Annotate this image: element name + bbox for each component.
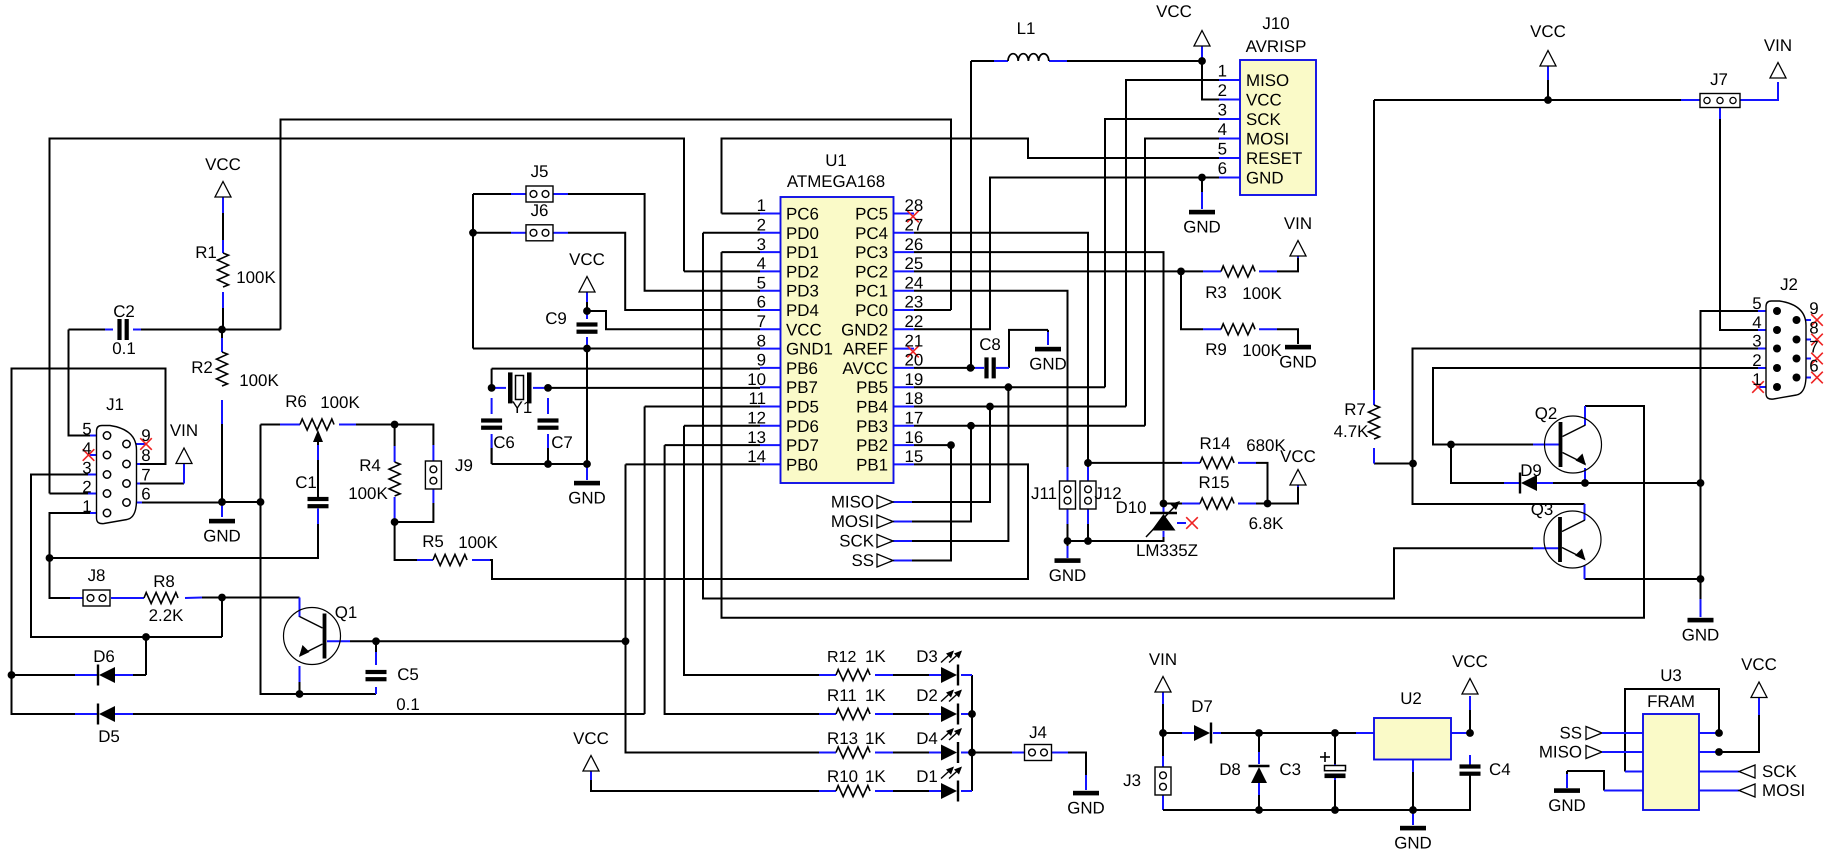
svg-text:R10: R10	[827, 767, 858, 786]
svg-text:VCC: VCC	[786, 320, 822, 339]
svg-text:23: 23	[905, 293, 924, 312]
svg-text:4: 4	[1218, 120, 1227, 139]
svg-text:GND2: GND2	[841, 320, 888, 339]
svg-text:D6: D6	[93, 647, 115, 666]
svg-text:Q2: Q2	[1535, 404, 1558, 423]
svg-text:R15: R15	[1199, 473, 1230, 492]
svg-text:1K: 1K	[865, 647, 886, 666]
svg-text:9: 9	[757, 351, 766, 370]
svg-text:11: 11	[748, 389, 766, 408]
svg-text:VIN: VIN	[170, 421, 198, 440]
svg-text:1K: 1K	[865, 686, 886, 705]
svg-text:2: 2	[757, 216, 766, 235]
svg-text:D1: D1	[916, 767, 938, 786]
svg-text:GND1: GND1	[786, 340, 833, 359]
svg-text:2: 2	[1218, 81, 1227, 100]
svg-text:5: 5	[82, 420, 91, 439]
svg-text:C7: C7	[551, 433, 573, 452]
svg-text:R7: R7	[1344, 400, 1366, 419]
svg-text:AREF: AREF	[843, 340, 888, 359]
svg-text:MOSI: MOSI	[1762, 781, 1805, 800]
svg-text:0.1: 0.1	[112, 339, 135, 358]
svg-text:C6: C6	[493, 433, 515, 452]
svg-text:100K: 100K	[320, 393, 360, 412]
svg-text:22: 22	[905, 312, 924, 331]
svg-text:VCC: VCC	[1741, 655, 1777, 674]
svg-text:D9: D9	[1520, 461, 1542, 480]
svg-text:1K: 1K	[865, 767, 886, 786]
svg-text:4: 4	[757, 254, 766, 273]
svg-text:18: 18	[905, 389, 924, 408]
svg-text:14: 14	[747, 447, 766, 466]
svg-text:GND: GND	[1682, 626, 1720, 645]
svg-text:PD2: PD2	[786, 262, 819, 281]
svg-text:20: 20	[905, 351, 924, 370]
svg-text:100K: 100K	[458, 533, 498, 552]
svg-text:R14: R14	[1200, 434, 1231, 453]
svg-text:9: 9	[1809, 299, 1818, 318]
svg-text:5: 5	[1218, 140, 1227, 159]
svg-text:FRAM: FRAM	[1647, 692, 1695, 711]
svg-text:PC4: PC4	[855, 224, 888, 243]
svg-text:J8: J8	[88, 566, 106, 585]
svg-text:C1: C1	[295, 473, 317, 492]
svg-text:GND: GND	[1246, 169, 1284, 188]
svg-text:PC1: PC1	[855, 282, 888, 301]
svg-text:15: 15	[905, 447, 924, 466]
svg-text:GND: GND	[1548, 796, 1586, 815]
svg-text:PD1: PD1	[786, 243, 819, 262]
svg-text:J5: J5	[531, 162, 549, 181]
svg-text:6: 6	[757, 293, 766, 312]
svg-text:1: 1	[82, 497, 91, 516]
svg-text:100K: 100K	[1242, 341, 1282, 360]
svg-text:PD5: PD5	[786, 398, 819, 417]
svg-text:24: 24	[905, 273, 924, 292]
svg-text:VCC: VCC	[1530, 22, 1566, 41]
svg-text:R8: R8	[153, 572, 175, 591]
svg-text:3: 3	[1218, 101, 1227, 120]
svg-text:4: 4	[82, 439, 91, 458]
svg-text:J1: J1	[106, 395, 124, 414]
svg-text:PC2: PC2	[855, 262, 888, 281]
svg-text:5: 5	[1752, 294, 1761, 313]
svg-text:MISO: MISO	[831, 493, 874, 512]
svg-text:VIN: VIN	[1764, 36, 1792, 55]
svg-text:26: 26	[905, 235, 924, 254]
svg-text:27: 27	[905, 216, 924, 235]
svg-text:MISO: MISO	[1246, 71, 1289, 90]
svg-text:PB1: PB1	[856, 455, 888, 474]
svg-text:C9: C9	[545, 309, 567, 328]
svg-text:C4: C4	[1489, 760, 1511, 779]
svg-text:MISO: MISO	[1539, 743, 1582, 762]
svg-text:VCC: VCC	[1156, 2, 1192, 21]
svg-text:D10: D10	[1116, 498, 1147, 517]
svg-text:U3: U3	[1660, 666, 1682, 685]
svg-text:6.8K: 6.8K	[1249, 514, 1284, 533]
svg-text:Q1: Q1	[335, 603, 358, 622]
svg-text:RESET: RESET	[1246, 149, 1302, 168]
svg-text:SCK: SCK	[1762, 762, 1797, 781]
svg-text:6: 6	[141, 485, 150, 504]
svg-text:J10: J10	[1262, 14, 1289, 33]
svg-text:VCC: VCC	[1246, 91, 1282, 110]
svg-text:ATMEGA168: ATMEGA168	[787, 172, 885, 191]
svg-text:8: 8	[1809, 319, 1818, 338]
svg-text:13: 13	[747, 428, 766, 447]
svg-text:J6: J6	[531, 201, 549, 220]
svg-text:PC5: PC5	[855, 205, 888, 224]
svg-text:2: 2	[82, 478, 91, 497]
svg-text:GND: GND	[1394, 834, 1432, 853]
svg-text:PB0: PB0	[786, 455, 818, 474]
svg-text:SS: SS	[1559, 724, 1582, 743]
svg-text:8: 8	[757, 331, 766, 350]
svg-text:PB5: PB5	[856, 378, 888, 397]
svg-text:28: 28	[905, 196, 924, 215]
svg-text:16: 16	[905, 428, 924, 447]
svg-text:1: 1	[1752, 370, 1761, 389]
svg-text:MOSI: MOSI	[831, 512, 874, 531]
svg-text:J11: J11	[1031, 484, 1057, 503]
svg-text:17: 17	[905, 409, 924, 428]
svg-text:PB7: PB7	[786, 378, 818, 397]
svg-text:R6: R6	[285, 392, 307, 411]
svg-text:PB3: PB3	[856, 417, 888, 436]
svg-text:21: 21	[905, 331, 924, 350]
svg-text:Q3: Q3	[1531, 500, 1554, 519]
svg-text:7: 7	[757, 312, 766, 331]
svg-text:4.7K: 4.7K	[1334, 422, 1369, 441]
svg-text:19: 19	[905, 370, 924, 389]
svg-text:C3: C3	[1279, 760, 1301, 779]
svg-text:PD3: PD3	[786, 282, 819, 301]
svg-text:VIN: VIN	[1149, 650, 1177, 669]
svg-text:0.1: 0.1	[396, 695, 419, 714]
svg-text:U2: U2	[1400, 689, 1422, 708]
svg-text:LM335Z: LM335Z	[1136, 541, 1198, 560]
svg-text:3: 3	[757, 235, 766, 254]
svg-text:1K: 1K	[865, 729, 886, 748]
svg-text:PC3: PC3	[855, 243, 888, 262]
svg-text:GND: GND	[1067, 799, 1105, 818]
svg-text:C2: C2	[113, 302, 135, 321]
svg-text:PC0: PC0	[855, 301, 888, 320]
svg-text:25: 25	[905, 254, 924, 273]
svg-text:6: 6	[1218, 159, 1227, 178]
svg-text:R4: R4	[359, 456, 381, 475]
svg-text:7: 7	[1809, 338, 1818, 357]
svg-text:SS: SS	[851, 551, 874, 570]
svg-text:R1: R1	[195, 243, 217, 262]
svg-text:D7: D7	[1191, 697, 1213, 716]
svg-text:D2: D2	[916, 686, 938, 705]
svg-text:R3: R3	[1205, 283, 1227, 302]
svg-text:R11: R11	[827, 686, 857, 705]
svg-text:R9: R9	[1205, 340, 1227, 359]
svg-text:C8: C8	[979, 335, 1001, 354]
svg-text:1: 1	[1218, 62, 1227, 81]
svg-text:PB6: PB6	[786, 359, 818, 378]
svg-text:PD6: PD6	[786, 417, 819, 436]
svg-text:4: 4	[1752, 313, 1761, 332]
svg-text:GND: GND	[1279, 353, 1317, 372]
svg-text:D8: D8	[1219, 760, 1241, 779]
svg-text:9: 9	[141, 426, 150, 445]
svg-text:6: 6	[1809, 357, 1818, 376]
svg-text:D4: D4	[916, 729, 938, 748]
svg-text:AVCC: AVCC	[842, 359, 888, 378]
svg-text:AVRISP: AVRISP	[1246, 37, 1307, 56]
svg-text:SCK: SCK	[1246, 110, 1281, 129]
svg-text:12: 12	[747, 409, 766, 428]
svg-text:PD0: PD0	[786, 224, 819, 243]
svg-text:D3: D3	[916, 647, 938, 666]
svg-text:3: 3	[1752, 332, 1761, 351]
svg-text:10: 10	[747, 370, 766, 389]
svg-text:PB4: PB4	[856, 398, 888, 417]
svg-text:PC6: PC6	[786, 205, 819, 224]
svg-text:R2: R2	[191, 358, 213, 377]
svg-text:2: 2	[1752, 351, 1761, 370]
svg-text:R12: R12	[827, 649, 856, 666]
svg-text:U1: U1	[825, 151, 847, 170]
svg-text:8: 8	[141, 446, 150, 465]
svg-text:J9: J9	[455, 456, 473, 475]
svg-text:5: 5	[757, 273, 766, 292]
svg-text:GND: GND	[203, 527, 241, 546]
svg-text:J4: J4	[1029, 723, 1047, 742]
svg-text:PD4: PD4	[786, 301, 819, 320]
svg-text:PD7: PD7	[786, 436, 819, 455]
svg-text:VIN: VIN	[1284, 214, 1312, 233]
svg-text:R13: R13	[827, 729, 858, 748]
svg-text:2.2K: 2.2K	[149, 606, 184, 625]
svg-text:100K: 100K	[1242, 284, 1282, 303]
svg-text:D5: D5	[98, 727, 120, 746]
svg-text:GND: GND	[1183, 218, 1221, 237]
svg-text:100K: 100K	[236, 268, 276, 287]
svg-text:GND: GND	[568, 489, 606, 508]
svg-text:R5: R5	[422, 532, 444, 551]
svg-text:VCC: VCC	[569, 250, 605, 269]
svg-text:3: 3	[82, 459, 91, 478]
svg-text:680K: 680K	[1246, 436, 1286, 455]
svg-text:C5: C5	[397, 665, 419, 684]
svg-text:1: 1	[757, 196, 766, 215]
svg-text:MOSI: MOSI	[1246, 130, 1289, 149]
svg-text:SCK: SCK	[839, 532, 874, 551]
svg-text:GND: GND	[1029, 355, 1067, 374]
svg-text:PB2: PB2	[856, 436, 888, 455]
svg-text:VCC: VCC	[1452, 652, 1488, 671]
svg-text:GND: GND	[1049, 566, 1087, 585]
svg-text:J3: J3	[1123, 771, 1141, 790]
svg-text:J7: J7	[1710, 70, 1728, 89]
svg-text:VCC: VCC	[573, 729, 609, 748]
svg-text:VCC: VCC	[205, 155, 241, 174]
svg-text:Y1: Y1	[512, 398, 533, 417]
svg-text:100K: 100K	[239, 371, 279, 390]
svg-text:7: 7	[141, 466, 150, 485]
svg-text:L1: L1	[1017, 19, 1036, 38]
svg-text:100K: 100K	[348, 484, 388, 503]
svg-text:J2: J2	[1780, 275, 1798, 294]
